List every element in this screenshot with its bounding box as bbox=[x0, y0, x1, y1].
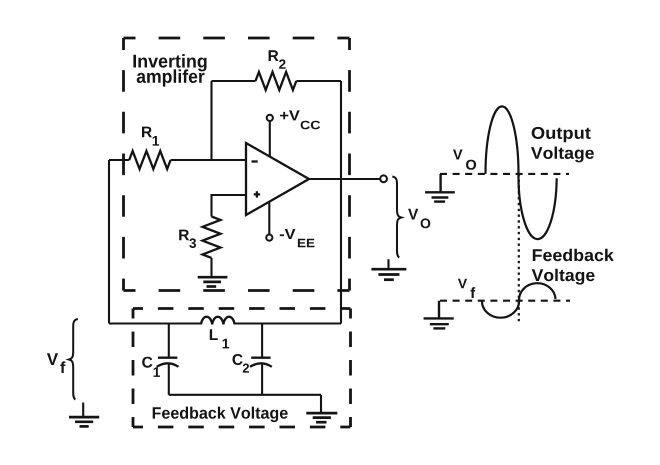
label Vf (waveform) bbox=[458, 279, 475, 298]
dotted phase line bbox=[518, 174, 520, 324]
ground (Vo baseline) bbox=[425, 174, 455, 202]
wire: left feedback vertical bbox=[108, 160, 110, 324]
label Vo (waveform) bbox=[453, 150, 476, 170]
wire: R2 right lead bbox=[296, 80, 341, 82]
baseline Vf (dashed) bbox=[440, 300, 570, 302]
brace Vo bbox=[392, 177, 401, 258]
ground (below Vo brace) bbox=[371, 269, 406, 280]
label Vo (circuit) bbox=[408, 209, 430, 229]
wire: R2 branch vertical bbox=[210, 81, 212, 160]
label: Feedback Voltage (waveform) bbox=[532, 249, 614, 285]
wire: Vf brace ground stub bbox=[82, 403, 84, 418]
wire: tank top right bbox=[235, 322, 341, 324]
wire: R3 to ground bbox=[210, 258, 212, 277]
label +VCC bbox=[280, 110, 320, 129]
resistor R1 bbox=[129, 151, 170, 169]
wire: R2 left lead bbox=[212, 80, 256, 82]
resistor R2 bbox=[256, 72, 297, 90]
terminal +VCC bbox=[267, 115, 273, 121]
baseline Vo (dashed) bbox=[440, 173, 569, 175]
label L1 bbox=[210, 329, 229, 348]
wire: R1 to op-amp inverting input bbox=[171, 159, 246, 161]
wire: +VCC to op-amp bbox=[269, 121, 271, 157]
ground (feedback) bbox=[306, 413, 337, 422]
wire: op-amp output bbox=[309, 178, 381, 180]
dashed box: inverting amplifier bbox=[124, 38, 350, 291]
op-amp U1 bbox=[246, 143, 309, 215]
label R1 bbox=[142, 127, 159, 146]
dashed box: feedback network bbox=[133, 309, 351, 428]
ground (Vf baseline) bbox=[424, 301, 454, 329]
brace Vf bbox=[69, 319, 78, 400]
label: Feedback Voltage (box) bbox=[153, 407, 288, 423]
output terminal Vo bbox=[380, 175, 387, 182]
ground (Vf) bbox=[69, 417, 99, 426]
label: Output Voltage bbox=[531, 127, 594, 162]
label R2 bbox=[269, 50, 286, 69]
resistor R3 bbox=[203, 217, 221, 258]
label C2 bbox=[233, 354, 250, 373]
label R3 bbox=[179, 230, 196, 248]
wire: tank top left bbox=[109, 322, 201, 324]
label -VEE bbox=[280, 229, 315, 247]
wire: op-amp to -VEE bbox=[268, 201, 270, 234]
wire: Vo brace ground stub bbox=[387, 259, 389, 269]
wire: input to R1 bbox=[109, 159, 129, 161]
capacitor C1 bbox=[157, 324, 179, 395]
op-amp non-inverting input marker bbox=[254, 191, 260, 197]
label C1 bbox=[142, 357, 160, 377]
output voltage waveform bbox=[486, 106, 557, 239]
wire: non-inverting input to R3 bbox=[212, 195, 247, 217]
label: Inverting amplifer bbox=[133, 54, 206, 87]
capacitor C2 bbox=[250, 324, 272, 395]
inductor L1 bbox=[201, 317, 235, 325]
label Vf (circuit) bbox=[47, 353, 66, 373]
wire: feedback bottom bbox=[169, 394, 321, 396]
wire: bottom to ground bbox=[320, 395, 322, 413]
feedback voltage waveform bbox=[482, 283, 556, 318]
op-amp inverting input marker bbox=[252, 160, 258, 162]
ground (R3) bbox=[198, 277, 228, 286]
wire: output right vertical to tank bbox=[340, 81, 342, 324]
terminal -VEE bbox=[266, 235, 272, 241]
